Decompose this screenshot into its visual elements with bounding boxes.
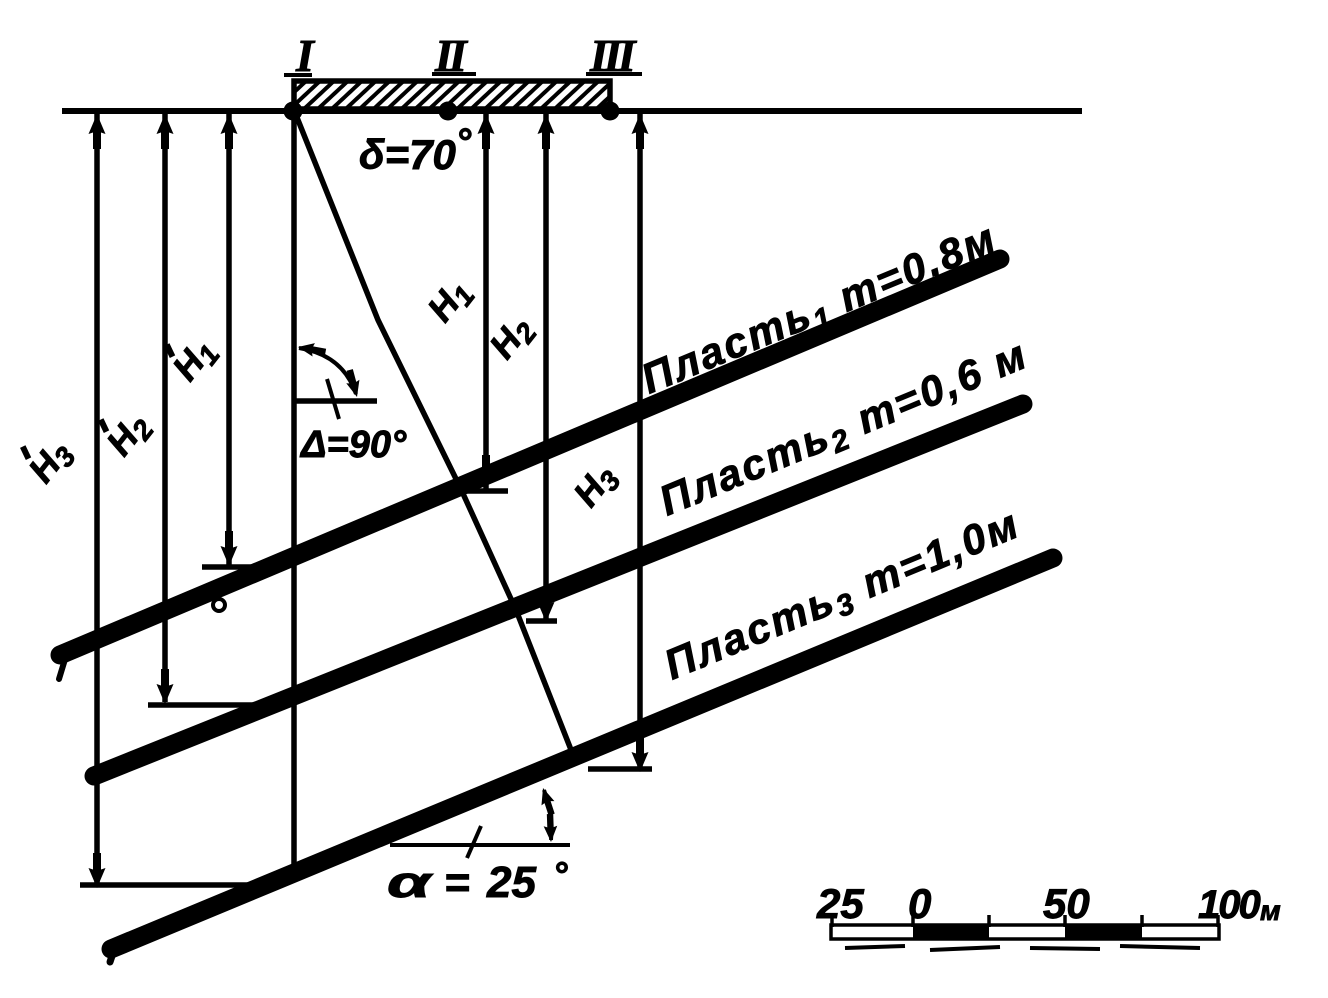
dimension line H2 [543, 113, 549, 621]
borehole mouth dot III [601, 102, 620, 121]
svg-text:50: 50 [1043, 880, 1090, 927]
label H3 [565, 456, 627, 517]
borehole mouth dot I [284, 102, 303, 121]
angle alpha=25 baseline [390, 843, 570, 847]
dimension line H3 [637, 113, 643, 770]
svg-text:H1: H1 [164, 330, 226, 391]
label H'2 [91, 399, 160, 466]
svg-text:0: 0 [908, 880, 931, 927]
svg-text:H3: H3 [20, 432, 82, 493]
dimension line H1 [483, 113, 489, 489]
tick H'2 [148, 702, 266, 708]
coal bed 3 [111, 558, 1053, 949]
underline III [586, 72, 642, 76]
svg-text:δ=70°: δ=70° [359, 122, 472, 178]
label H2 [481, 308, 543, 369]
coal bed 1 [60, 259, 1000, 655]
hatched surface works bar [294, 81, 610, 109]
underline I [284, 73, 312, 77]
label H1 [419, 271, 481, 332]
angle alpha=25 arc [544, 790, 551, 840]
inclined borehole from I [294, 110, 577, 765]
dimension line H'1 [226, 113, 232, 565]
dimension line H'2 [162, 113, 168, 702]
svg-text:H3: H3 [565, 456, 627, 517]
svg-text:H2: H2 [481, 308, 543, 369]
tick H1 [461, 488, 508, 494]
angle delta=90 baseline [294, 398, 377, 404]
scale bar filled segment 50-75 [1065, 925, 1142, 939]
svg-text:H2: H2 [98, 405, 160, 466]
svg-text:25: 25 [816, 880, 864, 927]
scale ticks [832, 915, 1218, 927]
scale bar outline [831, 925, 1219, 939]
label H'3 [13, 426, 82, 493]
svg-text:м: м [1260, 895, 1281, 926]
slash tick on alpha baseline [467, 826, 481, 858]
borehole mouth dot II [439, 102, 458, 121]
bed1 left tip droop [59, 656, 66, 679]
svg-text:=25°: =25° [444, 854, 568, 907]
smudge ring on bed 1 [213, 599, 225, 611]
tick H'1 [202, 564, 252, 570]
svg-text:Δ=90°: Δ=90° [299, 424, 407, 466]
label bed 2 [652, 330, 1036, 529]
scale shadow smudges [845, 946, 1200, 950]
svg-text:H1: H1 [419, 271, 481, 332]
underline II [432, 72, 476, 76]
slash tick on delta baseline [327, 379, 339, 419]
label H'1 [157, 324, 226, 391]
tick H3 [588, 766, 652, 772]
dimension line H'3 [94, 113, 100, 886]
label bed 1 [634, 213, 1005, 406]
bed3 left tip droop [110, 947, 115, 962]
label bed 3 [657, 499, 1028, 692]
ground surface line [62, 108, 1082, 114]
angle delta=90 arc [299, 348, 356, 394]
tick H2 [526, 618, 557, 624]
svg-text:α: α [387, 858, 434, 907]
svg-text:100: 100 [1198, 883, 1260, 927]
tick H'3 [80, 882, 258, 888]
vertical borehole I shaft [291, 110, 297, 872]
coal bed 2 [94, 404, 1023, 776]
scale bar filled segment 0-25 [913, 925, 989, 939]
